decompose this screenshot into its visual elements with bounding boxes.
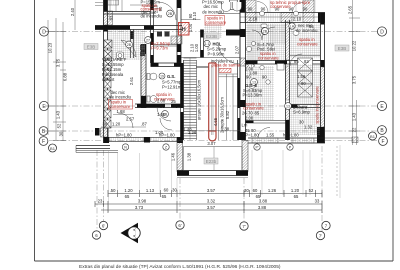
svg-text:10.23: 10.23 — [48, 42, 53, 53]
column line 6b dashed — [103, 150, 105, 221]
svg-text:55: 55 — [309, 24, 314, 29]
top strip window lines above cut — [95, 0, 150, 12]
right wing left wall — [226, 0, 246, 140]
svg-text:P=9.73m: P=9.73m — [151, 46, 168, 51]
annotation right wing left room — [242, 42, 280, 133]
wc fixture 1 — [117, 52, 124, 59]
svg-text:3.57: 3.57 — [207, 188, 216, 193]
stair flight inner lines — [212, 65, 214, 135]
bubble 6 bottom — [92, 231, 100, 239]
svg-text:1.43: 1.43 — [56, 110, 61, 119]
svg-text:1.04: 1.04 — [188, 23, 193, 32]
svg-text:P=13.36m: P=13.36m — [243, 93, 263, 98]
svg-text:90: 90 — [246, 75, 251, 80]
interior wall v1 left wing — [131, 30, 134, 59]
interior wall v2 — [151, 0, 154, 63]
tiled floor mid bath — [246, 24, 285, 61]
bottom dimension line 1 — [108, 190, 322, 197]
svg-text:2.57: 2.57 — [126, 117, 135, 122]
gray label E3B left — [84, 44, 98, 50]
right wing middle wall — [286, 20, 290, 140]
svg-text:7': 7' — [242, 224, 245, 229]
svg-text:33: 33 — [315, 199, 320, 204]
svg-text:83: 83 — [304, 59, 309, 64]
small dark blobs mid-left room — [157, 32, 170, 37]
svg-text:urcare 16x30x16,5cm: urcare 16x30x16,5cm — [196, 79, 201, 120]
annotation right wing right room — [293, 23, 318, 130]
svg-text:.87: .87 — [141, 122, 147, 127]
gs6 fixtures — [260, 64, 284, 85]
svg-text:1.56: 1.56 — [297, 74, 306, 79]
svg-text:30: 30 — [244, 188, 249, 193]
stairwell right wall — [238, 0, 241, 140]
svg-text:5.82: 5.82 — [225, 110, 230, 119]
bubble 7' bottom — [240, 222, 248, 230]
svg-text:1.38: 1.38 — [187, 152, 192, 161]
svg-text:1.38: 1.38 — [188, 130, 197, 135]
bottom dimension line 3 — [101, 207, 322, 213]
svg-text:E23b: E23b — [206, 159, 217, 164]
bubble 6'' bottom — [176, 221, 184, 229]
grid bubble F left — [39, 137, 48, 146]
svg-text:2.40: 2.40 — [70, 7, 75, 16]
gs6 interior wall y120 — [246, 121, 286, 124]
grid bubble B right — [378, 126, 387, 135]
svg-text:85: 85 — [255, 111, 260, 116]
svg-text:90: 90 — [303, 7, 308, 12]
grid line B dashed — [49, 130, 378, 132]
door tag 2B top — [167, 10, 174, 17]
stair right shaft lines — [219, 62, 238, 140]
svg-text:65: 65 — [125, 194, 130, 199]
grid line D dashed — [49, 31, 378, 33]
sink fixture right — [249, 31, 299, 89]
gray label E23b lower — [204, 158, 218, 164]
tiled floor right room lower — [290, 64, 320, 104]
left wing bottom interior wall y108 — [135, 104, 182, 108]
lower wing bottom wall — [177, 171, 248, 178]
left room dims — [101, 109, 147, 127]
bottom dimension texts row2 — [98, 199, 320, 211]
svg-text:LH: LH — [290, 25, 295, 29]
door arc gs2 — [160, 118, 172, 130]
svg-text:1.20: 1.20 — [112, 122, 121, 127]
grid bubble D left — [39, 27, 48, 36]
annotation texts top left room — [109, 0, 163, 20]
stair red flight — [209, 63, 216, 141]
right dimension lines — [349, 0, 360, 145]
column line 6' dashed — [179, 178, 181, 221]
svg-text:60: 60 — [164, 188, 169, 193]
svg-text:1.00: 1.00 — [155, 130, 164, 135]
right room shelf line — [290, 55, 320, 57]
red hatch patch top of stair — [219, 68, 231, 72]
bottom facade wall — [76, 128, 358, 152]
svg-text:1.26: 1.26 — [268, 188, 277, 193]
svg-text:P=9.98m: P=9.98m — [208, 52, 225, 57]
svg-text:30: 30 — [172, 188, 177, 193]
lower wing right wall — [242, 141, 248, 172]
svg-text:36: 36 — [103, 122, 108, 127]
svg-text:65: 65 — [294, 194, 299, 199]
wc toilet gs 1 — [147, 73, 157, 80]
door tag P' — [254, 144, 260, 150]
red boxed annotation left — [109, 100, 133, 110]
svg-text:22: 22 — [352, 127, 357, 132]
svg-text:1.20: 1.20 — [291, 188, 300, 193]
door arc bath — [262, 27, 275, 40]
column line 7' dashed — [243, 178, 245, 221]
svg-text:hP=1.80: hP=1.80 — [243, 133, 259, 138]
svg-text:2.07: 2.07 — [235, 45, 240, 54]
svg-text:90: 90 — [160, 104, 165, 109]
gray label E23B mid — [204, 33, 219, 39]
svg-text:de incendiu: de incendiu — [141, 13, 163, 18]
section marker A-A — [121, 223, 141, 243]
svg-text:H: H — [182, 27, 186, 33]
svg-text:1.46: 1.46 — [171, 152, 176, 161]
svg-text:30: 30 — [59, 131, 64, 136]
svg-text:90: 90 — [262, 75, 267, 80]
svg-text:conservare: conservare — [297, 42, 318, 47]
svg-text:45: 45 — [245, 128, 250, 133]
lower wing left wall — [177, 141, 183, 172]
svg-text:7': 7' — [319, 233, 322, 238]
svg-text:85: 85 — [294, 59, 299, 64]
svg-text:G.S.: G.S. — [167, 74, 175, 79]
hol wall v — [201, 30, 204, 58]
fire hydrant box H red — [179, 23, 194, 36]
right dimension texts rotated — [348, 5, 357, 132]
svg-text:52: 52 — [57, 123, 62, 128]
svg-text:conservare: conservare — [258, 56, 279, 61]
interior wall v1b left wing — [141, 44, 146, 108]
tiled floor right room upper — [290, 24, 320, 59]
tiled floor left room — [108, 30, 145, 60]
svg-text:23: 23 — [98, 199, 103, 204]
misc witness lines bottom — [109, 145, 341, 212]
door tag 13b — [285, 103, 292, 110]
svg-text:S=6.9mp: S=6.9mp — [293, 110, 311, 115]
left dimension texts rotated — [48, 7, 76, 136]
svg-text:conservare: conservare — [206, 20, 227, 25]
door arc gs — [157, 107, 171, 121]
lower wing inner divider — [213, 147, 215, 171]
svg-text:96: 96 — [261, 7, 266, 12]
wc fixture 5 — [261, 24, 267, 35]
central wall with hydrant — [171, 0, 182, 63]
svg-text:90: 90 — [301, 81, 306, 86]
svg-text:F: F — [381, 139, 384, 145]
svg-text:2B: 2B — [127, 43, 132, 47]
svg-text:1.43: 1.43 — [352, 112, 357, 121]
svg-text:conservare: conservare — [270, 4, 291, 9]
svg-text:3.98: 3.98 — [138, 199, 147, 204]
svg-text:1.32: 1.32 — [304, 125, 313, 130]
svg-text:P=12.91m: P=12.91m — [162, 85, 182, 90]
svg-text:2.10: 2.10 — [189, 43, 194, 52]
stairwell left wall — [181, 60, 184, 140]
svg-text:E3B: E3B — [338, 46, 347, 51]
lower wing inner rect — [184, 147, 243, 171]
door arc hol — [218, 42, 240, 64]
bottom dimension line 2 — [95, 201, 322, 207]
svg-text:1.20: 1.20 — [124, 188, 133, 193]
svg-text:E3B: E3B — [87, 44, 96, 49]
svg-text:19: 19 — [160, 74, 164, 78]
svg-text:E23B: E23B — [206, 34, 217, 39]
svg-text:N: N — [124, 146, 127, 150]
sink circles mid bath — [246, 42, 255, 52]
stair flight edge — [196, 60, 198, 140]
top wall dim texts — [237, 7, 308, 22]
svg-text:plasa de sarma: plasa de sarma — [212, 63, 241, 68]
svg-text:13: 13 — [286, 105, 290, 109]
svg-text:.50: .50 — [110, 188, 116, 193]
svg-text:D: D — [380, 29, 384, 35]
door tag N — [122, 144, 128, 150]
svg-text:3.88: 3.88 — [259, 199, 268, 204]
tiled floor hol strip — [204, 24, 222, 38]
right outer wall — [317, 13, 325, 144]
door arc top left wing — [158, 2, 176, 20]
wc toilet gs 2 — [147, 96, 157, 103]
svg-text:de incendiu: de incendiu — [296, 28, 318, 33]
door arc left room — [118, 113, 133, 128]
frame border left — [34, 0, 36, 261]
grid bubble B left — [39, 127, 48, 136]
bubble 6' bottom — [99, 221, 107, 229]
door arcs top wall right wing — [257, 2, 268, 13]
grid line E dashed — [49, 105, 378, 107]
svg-text:P': P' — [255, 146, 258, 150]
tiled floor gs room — [246, 66, 274, 120]
sink U fixture hol 1 — [222, 2, 231, 12]
left margin small dim line — [74, 0, 76, 30]
tiny door tags top wall — [260, 11, 265, 16]
svg-text:65: 65 — [162, 194, 167, 199]
svg-text:2.10: 2.10 — [192, 11, 197, 20]
grid bubble D right — [377, 27, 386, 36]
svg-text:1.1: 1.1 — [205, 42, 210, 46]
svg-text:6': 6' — [102, 223, 105, 228]
left dimension line a — [45, 18, 66, 141]
svg-text:4.65: 4.65 — [213, 117, 218, 126]
frame border bottom — [35, 260, 394, 262]
svg-text:3.07: 3.07 — [207, 141, 216, 146]
svg-text:2.65: 2.65 — [348, 5, 353, 14]
svg-text:6.88: 6.88 — [63, 72, 68, 81]
svg-text:90: 90 — [188, 13, 193, 18]
svg-text:2.61: 2.61 — [129, 76, 134, 85]
top window box left — [108, 0, 119, 5]
svg-text:1.00: 1.00 — [157, 112, 166, 117]
svg-text:52: 52 — [309, 188, 314, 193]
annotation gs left — [154, 73, 197, 135]
svg-text:83: 83 — [109, 15, 114, 20]
door arc bath2 — [252, 30, 262, 40]
left outer wall — [101, 0, 113, 143]
frame border right — [392, 0, 394, 261]
dark fixture cluster left room — [140, 45, 145, 56]
svg-text:1.00: 1.00 — [194, 43, 199, 52]
svg-text:2B: 2B — [263, 30, 268, 34]
svg-text:90: 90 — [248, 7, 253, 12]
top wall left wing thin — [104, 12, 151, 15]
svg-text:2.00: 2.00 — [157, 99, 166, 104]
svg-text:A . A: A . A — [132, 228, 137, 237]
svg-text:75: 75 — [173, 104, 178, 109]
svg-text:3.73: 3.73 — [135, 205, 144, 210]
svg-text:3.57: 3.57 — [207, 205, 216, 210]
column line 7 dashed — [321, 146, 323, 231]
svg-text:10.22: 10.22 — [352, 40, 357, 51]
top witness lines — [237, 0, 315, 12]
annotation texts hol — [181, 0, 240, 56]
grid bubble B1 left — [49, 144, 57, 152]
right wing interior wall y105 — [290, 105, 321, 108]
bubble 7 bottom — [322, 221, 330, 229]
door arc debara — [290, 54, 302, 66]
svg-text:Extras din planul de situatie: Extras din planul de situatie (TP) Aviza… — [79, 264, 281, 270]
svg-text:ciment: ciment — [102, 77, 115, 82]
svg-text:3.75: 3.75 — [352, 75, 357, 84]
bubble 7'b bottom — [316, 231, 324, 239]
door tag N2 — [163, 144, 169, 150]
door tag 2B mid — [262, 28, 269, 35]
right wing interior wall y60 — [246, 61, 321, 65]
thin wall mid-left room — [154, 44, 177, 46]
svg-text:3.32: 3.32 — [207, 199, 216, 204]
top interior wall left wing — [95, 26, 182, 30]
door tag 1B — [162, 111, 169, 118]
annotation inchidere — [211, 58, 241, 67]
right wing top wall with piers — [240, 0, 325, 23]
column line 7b dashed — [336, 146, 338, 198]
grid bubble E right — [377, 101, 386, 110]
svg-text:6': 6' — [178, 223, 181, 228]
door tag LH — [289, 23, 295, 29]
svg-text:2B: 2B — [168, 12, 173, 16]
svg-text:3.88: 3.88 — [258, 205, 267, 210]
door circle tag 2B left room — [126, 41, 133, 48]
gs6 door arc bottom — [258, 128, 270, 139]
stair treads — [184, 58, 197, 139]
sink U fixture hol 2 — [233, 2, 242, 11]
svg-text:1.13: 1.13 — [146, 188, 155, 193]
svg-text:2.10: 2.10 — [293, 17, 302, 22]
grid bubble E left — [39, 101, 48, 110]
svg-text:3.75: 3.75 — [56, 58, 61, 67]
tiled floor right lower small — [290, 108, 320, 135]
svg-text:D: D — [42, 29, 46, 35]
svg-text:1.38: 1.38 — [221, 127, 230, 132]
grid line F dashed — [49, 140, 378, 142]
svg-text:1.68: 1.68 — [117, 109, 126, 114]
svg-text:B1: B1 — [370, 134, 376, 139]
wardrobe X-box column right wing — [298, 58, 313, 97]
grid bubble B1 right — [369, 132, 377, 140]
left wall X-box piers — [104, 40, 112, 128]
svg-text:60: 60 — [253, 188, 258, 193]
svg-text:hP=1.80: hP=1.80 — [116, 133, 132, 138]
svg-text:80: 80 — [251, 128, 256, 133]
fixture box top of right wing — [230, 0, 238, 10]
door tag 27 — [145, 37, 152, 44]
svg-text:27: 27 — [146, 39, 150, 43]
mid horizontal wall y63 — [151, 58, 241, 68]
door arc left room mid — [121, 40, 136, 57]
svg-text:2.00: 2.00 — [245, 116, 254, 121]
door tag 13 — [251, 79, 258, 86]
svg-text:2.10: 2.10 — [249, 17, 258, 22]
svg-text:B1: B1 — [50, 146, 56, 151]
svg-text:dec mic: dec mic — [204, 4, 218, 9]
svg-text:F: F — [42, 139, 45, 145]
door tag P — [287, 144, 293, 150]
column line 6 dashed — [96, 150, 98, 231]
bottom dimension texts row1 — [110, 188, 314, 199]
gray label E3B right — [335, 45, 349, 51]
svg-text:1.55: 1.55 — [266, 133, 275, 138]
grid bubble F right — [379, 137, 388, 146]
annotation vestiare — [102, 57, 132, 100]
